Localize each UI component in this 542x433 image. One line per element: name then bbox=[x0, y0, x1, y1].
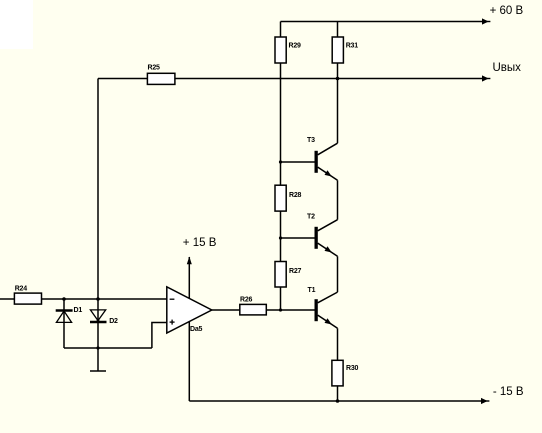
svg-text:R27: R27 bbox=[289, 268, 302, 275]
svg-text:Da5: Da5 bbox=[190, 326, 203, 333]
svg-text:T2: T2 bbox=[307, 213, 315, 220]
svg-text:R24: R24 bbox=[15, 286, 28, 293]
svg-text:- 15 В: - 15 В bbox=[493, 386, 524, 398]
svg-text:T3: T3 bbox=[307, 137, 315, 144]
svg-text:R30: R30 bbox=[346, 365, 359, 372]
svg-text:+ 60 В: + 60 В bbox=[490, 5, 524, 17]
svg-text:+ 15 В: + 15 В bbox=[183, 237, 217, 249]
svg-text:D1: D1 bbox=[74, 307, 83, 314]
svg-text:R29: R29 bbox=[289, 42, 302, 49]
svg-text:R26: R26 bbox=[240, 297, 253, 304]
svg-text:D2: D2 bbox=[109, 318, 118, 325]
svg-text:R31: R31 bbox=[346, 42, 359, 49]
svg-text:T1: T1 bbox=[308, 287, 316, 294]
svg-text:Uвых: Uвых bbox=[493, 62, 522, 74]
svg-text:R25: R25 bbox=[148, 65, 161, 72]
svg-text:R28: R28 bbox=[289, 192, 302, 199]
